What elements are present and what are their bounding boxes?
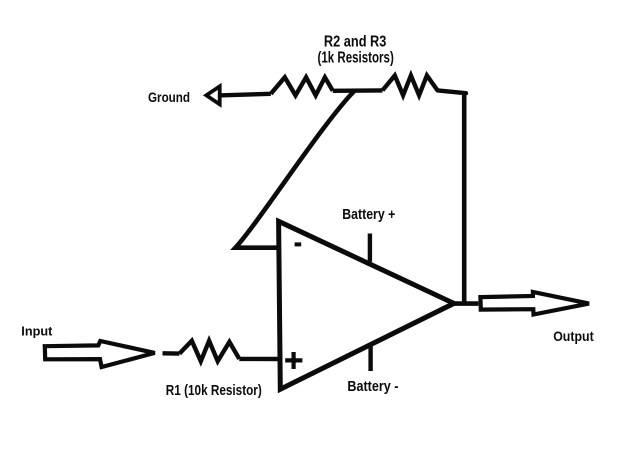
svg-text:Ground: Ground bbox=[148, 89, 190, 105]
wire: R1 to non-inverting input bbox=[239, 357, 280, 362]
resistor R2 bbox=[271, 77, 333, 95]
wire: R2-R3 junction segment bbox=[333, 88, 383, 93]
wire: input arrow to R1 bbox=[163, 351, 180, 356]
svg-text:(1k Resistors): (1k Resistors) bbox=[318, 50, 394, 67]
op-amp U1 bbox=[279, 221, 454, 389]
resistor R3 bbox=[383, 76, 438, 96]
battery - supply pin bbox=[368, 343, 372, 371]
ground arrow bbox=[206, 86, 219, 104]
non-inverting input plus sign bbox=[285, 352, 302, 369]
svg-text:R2 and R3: R2 and R3 bbox=[324, 34, 387, 51]
battery + supply pin bbox=[368, 234, 372, 262]
svg-text:R1 (10k Resistor): R1 (10k Resistor) bbox=[166, 383, 262, 399]
input arrow bbox=[45, 341, 155, 367]
wire: output node bbox=[452, 301, 478, 306]
svg-text:Input: Input bbox=[21, 324, 53, 339]
wire: R3 to top-right corner bbox=[438, 90, 467, 93]
svg-text:Battery -: Battery - bbox=[347, 378, 398, 395]
wire: feedback diagonal to inverting input bbox=[235, 91, 354, 247]
inverting input minus sign bbox=[295, 242, 302, 246]
svg-text:Output: Output bbox=[553, 329, 594, 344]
wire: ground arrow to R2 bbox=[219, 94, 271, 96]
output arrow bbox=[480, 292, 589, 315]
svg-text:Battery +: Battery + bbox=[342, 206, 395, 223]
wire: feedback vertical drop bbox=[462, 92, 467, 304]
resistor R1 bbox=[179, 341, 239, 361]
